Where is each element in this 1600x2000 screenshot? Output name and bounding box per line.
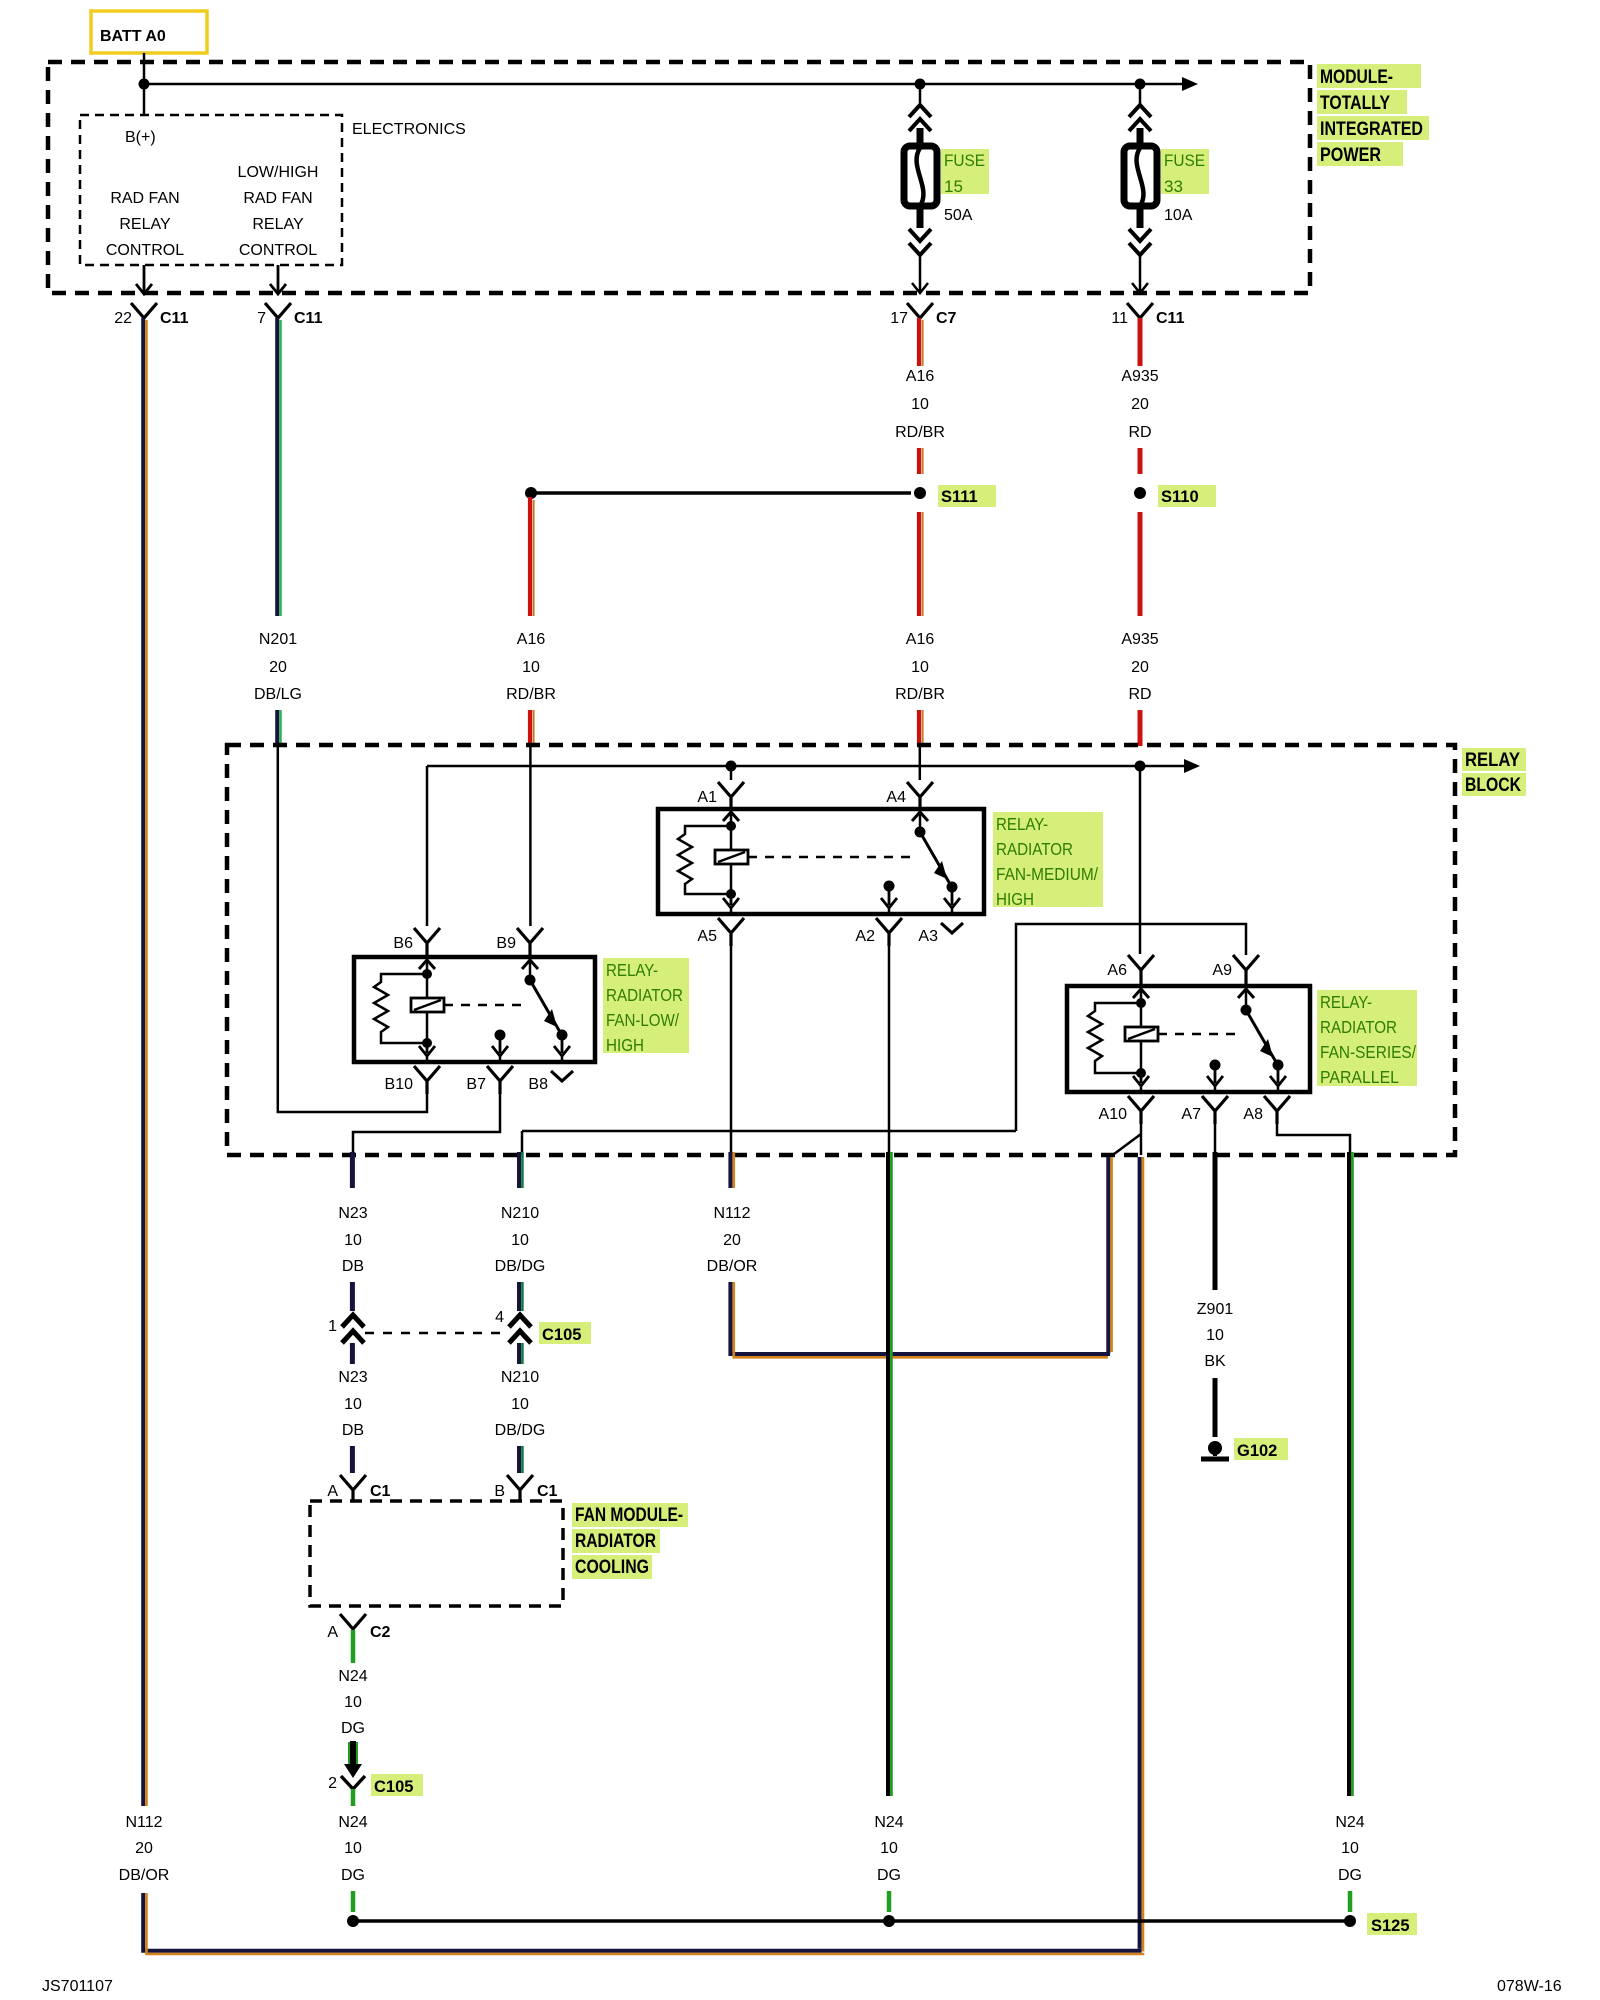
wire N23 DB segment below relay block — [350, 1152, 355, 1188]
switch pivot — [529, 960, 532, 980]
wire N112 DB/OR from A5 down — [730, 1152, 733, 1188]
svg-text:A7: A7 — [1181, 1106, 1201, 1123]
svg-text:DB/LG: DB/LG — [254, 686, 302, 703]
pin B6 connector — [414, 928, 440, 957]
coil output chevron to A10 — [1133, 1073, 1149, 1086]
node: fuse 15 tap — [915, 79, 926, 90]
wire A4 feed below border — [919, 746, 922, 780]
svg-text:A935: A935 — [1121, 631, 1158, 648]
svg-text:BLOCK: BLOCK — [1465, 775, 1521, 796]
svg-text:A8: A8 — [1243, 1106, 1263, 1123]
label N24 10 DG lower left — [338, 1814, 367, 1884]
wire: relay block distribution rail — [427, 766, 1184, 926]
splice S111 — [914, 487, 926, 499]
wire from BATT A0 down — [143, 53, 146, 84]
switch contact to A8 — [1270, 1065, 1286, 1086]
wire N112 DB/OR label segment left column — [119, 1814, 170, 1884]
node S125 center — [883, 1915, 895, 1927]
label N23 10 DB — [338, 1205, 367, 1275]
wire A935 RD segment S110 down — [1138, 512, 1143, 616]
svg-text:20: 20 — [269, 659, 287, 676]
svg-text:N210: N210 — [501, 1205, 539, 1222]
svg-text:10: 10 — [344, 1396, 362, 1413]
svg-text:50A: 50A — [944, 207, 973, 224]
svg-text:N24: N24 — [1335, 1814, 1364, 1831]
switch blade — [530, 980, 560, 1032]
wire A5 down inside block — [730, 946, 733, 1155]
svg-text:ELECTRONICS: ELECTRONICS — [352, 121, 466, 138]
svg-text:10: 10 — [1206, 1327, 1224, 1344]
svg-text:C11: C11 — [294, 310, 323, 327]
svg-text:RD: RD — [1128, 686, 1151, 703]
label S125 — [1367, 1913, 1417, 1935]
connector 17 C7 — [890, 303, 956, 327]
wire: top power rail — [144, 83, 1182, 86]
svg-text:RADIATOR: RADIATOR — [606, 985, 683, 1005]
wire N201 DB/LG segment to relay block — [277, 710, 280, 746]
pin A6 connector — [1128, 955, 1154, 986]
wire Z901 BK segment below relay block — [1213, 1152, 1218, 1290]
label S111 — [938, 485, 996, 507]
label FUSE 15 — [941, 149, 989, 224]
svg-text:RD/BR: RD/BR — [895, 686, 945, 703]
svg-text:DB/OR: DB/OR — [119, 1867, 170, 1884]
wire Z901 BK segment to ground — [1213, 1378, 1218, 1437]
ground G102 — [1201, 1441, 1229, 1459]
fuse 15 top chevrons — [909, 105, 931, 131]
pin A10 connector — [1128, 1096, 1154, 1124]
battery feed label box BATT A0 — [91, 11, 207, 53]
svg-text:CONTROL: CONTROL — [106, 242, 184, 259]
coil K2 — [411, 998, 444, 1012]
label A16 10 RD/BR upper — [895, 368, 945, 441]
wire A935 RD segment below C11 — [1138, 318, 1143, 366]
wire A16 RD/BR left branch below S111 tap — [530, 497, 534, 616]
svg-text:N24: N24 — [874, 1814, 903, 1831]
svg-text:C2: C2 — [370, 1624, 391, 1641]
splice S125 — [1344, 1915, 1356, 1927]
wire N112 DB/OR bottom rail — [143, 1893, 1144, 1954]
svg-text:FAN-MEDIUM/: FAN-MEDIUM/ — [996, 864, 1098, 884]
dashed actuator link — [444, 1004, 523, 1007]
arrowhead power rail continuation — [1182, 77, 1198, 91]
node: S111 branch left end — [525, 487, 537, 499]
svg-text:B9: B9 — [496, 935, 516, 952]
dashed actuator link — [1158, 1033, 1239, 1036]
svg-text:10: 10 — [511, 1396, 529, 1413]
svg-text:A935: A935 — [1121, 368, 1158, 385]
svg-text:N23: N23 — [338, 1369, 367, 1386]
A1 entry chevron — [723, 812, 739, 821]
wire N23 DB segment to C105 — [350, 1282, 355, 1311]
label RAD FAN RELAY CONTROL — [106, 190, 184, 259]
svg-text:RELAY-: RELAY- — [996, 814, 1048, 834]
svg-text:078W-16: 078W-16 — [1497, 1978, 1562, 1995]
label A935 20 RD center — [1121, 631, 1158, 703]
svg-text:A16: A16 — [517, 631, 546, 648]
fuse 33 top stub — [1137, 128, 1144, 148]
svg-text:HIGH: HIGH — [606, 1035, 644, 1055]
svg-text:DG: DG — [1338, 1867, 1362, 1884]
coil output chevron to B10 — [419, 1043, 435, 1056]
svg-text:RD/BR: RD/BR — [895, 424, 945, 441]
wire: S125 ground rail — [353, 1919, 1350, 1923]
svg-text:B: B — [494, 1483, 505, 1500]
svg-text:RELAY-: RELAY- — [606, 960, 658, 980]
resistor — [678, 826, 731, 894]
svg-text:A: A — [327, 1483, 338, 1500]
pin B10 connector — [414, 1066, 440, 1094]
svg-text:HIGH: HIGH — [996, 889, 1034, 909]
connector A C1 — [327, 1475, 390, 1501]
fuse 15 top stub — [917, 128, 924, 148]
label N112 20 DB/OR — [707, 1205, 758, 1275]
svg-text:RAD FAN: RAD FAN — [243, 190, 312, 207]
fuse F15 body — [904, 146, 937, 206]
label N210 10 DB/DG — [495, 1205, 546, 1275]
relay-radiator fan-low/high U1 — [354, 928, 595, 1094]
svg-text:S111: S111 — [941, 488, 978, 506]
wire N112 DB/OR from pin 22 down — [143, 318, 146, 1806]
svg-text:RADIATOR: RADIATOR — [996, 839, 1073, 859]
svg-text:S125: S125 — [1371, 1917, 1410, 1935]
resistor — [1088, 1003, 1141, 1073]
svg-text:FUSE: FUSE — [944, 151, 985, 170]
pin A5 connector — [718, 918, 744, 946]
svg-text:JS701107: JS701107 — [42, 1978, 113, 1995]
svg-text:INTEGRATED: INTEGRATED — [1320, 119, 1423, 140]
coil column — [1140, 989, 1143, 1073]
wire A8 to right column — [1277, 1124, 1350, 1155]
svg-text:C105: C105 — [374, 1778, 413, 1796]
wire N24 DG from A2 down — [888, 1152, 891, 1796]
svg-text:C11: C11 — [1156, 310, 1185, 327]
wire N24 DG stem below C105 — [351, 1789, 356, 1806]
coil K1 — [715, 850, 748, 864]
wire A16 RD/BR segment to S111 — [919, 448, 923, 474]
label N23 10 DB lower — [338, 1369, 367, 1439]
svg-text:11: 11 — [1111, 310, 1128, 327]
switch blade — [1246, 1010, 1276, 1062]
relay box — [658, 809, 984, 914]
label N24 10 DG — [338, 1668, 367, 1737]
svg-text:A9: A9 — [1212, 962, 1232, 979]
svg-text:MODULE-: MODULE- — [1320, 67, 1393, 88]
wire into electronics box — [143, 84, 146, 115]
label C105 lower — [371, 1774, 423, 1796]
arrowhead relay rail continuation — [1184, 759, 1200, 773]
svg-text:DB: DB — [342, 1258, 364, 1275]
pin B8 open connector — [551, 1071, 573, 1081]
label FAN MODULE-RADIATOR COOLING — [572, 1503, 688, 1579]
relay box — [354, 957, 595, 1062]
wire N24 DG segment to S125 right — [1348, 1891, 1353, 1912]
switch contact to A3 — [944, 887, 960, 908]
svg-text:A16: A16 — [906, 631, 935, 648]
wire N24 DG segment to S125 center — [887, 1891, 892, 1912]
coil output chevron to A5 — [723, 894, 739, 908]
label N201 20 DB/LG — [254, 631, 302, 703]
label LOW/HIGH RAD FAN RELAY CONTROL — [238, 164, 319, 259]
wire N24 DG segment to S125 — [351, 1891, 356, 1912]
svg-text:10: 10 — [511, 1232, 529, 1249]
label A16 10 RD/BR center — [895, 631, 945, 703]
connector C105 pin 1 — [328, 1315, 364, 1343]
svg-text:FUSE: FUSE — [1164, 151, 1205, 170]
svg-text:10: 10 — [344, 1694, 362, 1711]
relay-radiator fan-medium/high U2 — [658, 782, 984, 946]
fuse 33 bottom stub — [1137, 204, 1144, 228]
coil K3 — [1125, 1027, 1158, 1041]
svg-text:N23: N23 — [338, 1205, 367, 1222]
label N24 10 DG right — [1335, 1814, 1364, 1884]
svg-text:DG: DG — [341, 1720, 365, 1737]
connector 7 C11 — [257, 303, 322, 327]
svg-text:FAN MODULE-: FAN MODULE- — [575, 1505, 683, 1526]
wire A16 inside relay block to B9 — [529, 746, 532, 926]
svg-text:RELAY: RELAY — [119, 216, 171, 233]
svg-text:A10: A10 — [1099, 1106, 1128, 1123]
wire: S111 branch horizontal — [531, 491, 911, 495]
svg-text:S110: S110 — [1161, 488, 1199, 506]
pin A1 connector — [718, 782, 744, 809]
wire: low/high rad fan relay control output arrow — [270, 265, 286, 294]
svg-text:DB/OR: DB/OR — [707, 1258, 758, 1275]
svg-text:10A: 10A — [1164, 207, 1193, 224]
B6 entry chevron — [419, 960, 435, 969]
svg-text:N112: N112 — [713, 1205, 750, 1222]
fuse 15 bottom chevrons — [909, 229, 931, 255]
connector C105 pin 2 — [328, 1775, 365, 1802]
coil column — [730, 812, 733, 894]
relay block dashed box — [227, 745, 1455, 1155]
svg-text:2: 2 — [328, 1775, 337, 1792]
wire N23 DB segment to C1 — [350, 1446, 355, 1473]
wire B7 to N23 stub — [353, 1094, 500, 1155]
svg-text:BATT A0: BATT A0 — [100, 28, 166, 45]
wire N210 DB/DG segment below C105 — [519, 1343, 522, 1364]
pin A9 connector — [1233, 955, 1259, 986]
svg-text:7: 7 — [257, 310, 266, 327]
wire A16 RD/BR segment to relay block — [919, 710, 923, 746]
svg-text:N24: N24 — [338, 1814, 367, 1831]
svg-text:20: 20 — [1131, 659, 1149, 676]
wire N210 DB/DG segment to C1 — [519, 1446, 522, 1473]
label N24 10 DG center — [874, 1814, 903, 1884]
wire N24 DG bold arrow into C105 — [344, 1741, 362, 1778]
pin B7 connector — [487, 1066, 513, 1094]
wire N23 DB segment below C105 — [350, 1343, 355, 1364]
svg-text:PARALLEL: PARALLEL — [1320, 1067, 1399, 1087]
splice S110 — [1134, 487, 1146, 499]
label A16 10 RD/BR left — [506, 631, 556, 703]
wire A1 feed from rail — [730, 766, 733, 780]
wire A16 RD/BR segment below C7 — [919, 318, 923, 366]
B9 entry chevron — [522, 960, 538, 969]
dashed actuator link — [748, 856, 912, 859]
svg-text:FAN-LOW/: FAN-LOW/ — [606, 1010, 679, 1030]
module-totally integrated power dashed box — [48, 62, 1310, 293]
wire N201 DB/LG segment from pin 7 — [277, 318, 280, 616]
pin A3 open connector — [941, 923, 963, 933]
svg-text:CONTROL: CONTROL — [239, 242, 317, 259]
node: fuse 33 tap — [1135, 79, 1146, 90]
wire A7 down inside block — [1214, 1124, 1217, 1155]
label Z901 10 BK — [1197, 1301, 1234, 1370]
A7 contact — [1210, 1060, 1221, 1071]
node S125 left — [347, 1915, 359, 1927]
fuse 33 output wire with arrowhead — [1132, 255, 1148, 293]
node: rail to A6 — [1135, 761, 1146, 772]
svg-text:N112: N112 — [125, 1814, 162, 1831]
wire A935 RD segment to S110 — [1138, 448, 1143, 474]
A9 entry chevron — [1238, 989, 1254, 998]
svg-text:A6: A6 — [1107, 962, 1127, 979]
wire N210 DB/DG segment to C105 — [519, 1282, 522, 1311]
connector 11 C11 — [1111, 303, 1184, 327]
A4 entry chevron — [912, 812, 928, 821]
svg-text:DG: DG — [877, 1867, 901, 1884]
svg-text:RELAY: RELAY — [252, 216, 304, 233]
fuse 33 top chevrons — [1129, 105, 1151, 131]
wire A6 feed from rail — [1139, 766, 1142, 954]
svg-text:RELAY-: RELAY- — [1320, 992, 1372, 1012]
wire N210 DB/DG segment below relay block — [519, 1152, 522, 1188]
wire N24 DG segment below C2 — [351, 1630, 356, 1663]
wire A16 RD/BR segment S111 down — [919, 512, 923, 616]
wire N201 inside relay block to B10 — [278, 746, 427, 1112]
label RELAY-RADIATOR FAN-SERIES/PARALLEL — [1317, 990, 1417, 1087]
pin B9 connector — [517, 928, 543, 957]
svg-text:20: 20 — [723, 1232, 741, 1249]
A2 contact — [884, 881, 895, 892]
svg-text:10: 10 — [344, 1232, 362, 1249]
svg-text:22: 22 — [114, 310, 132, 327]
svg-text:LOW/HIGH: LOW/HIGH — [238, 164, 319, 181]
svg-text:A4: A4 — [886, 789, 906, 806]
pin A7 connector — [1202, 1096, 1228, 1124]
svg-text:C105: C105 — [542, 1326, 581, 1344]
svg-text:10: 10 — [880, 1840, 898, 1857]
svg-text:RELAY: RELAY — [1465, 750, 1520, 771]
svg-text:RD/BR: RD/BR — [506, 686, 556, 703]
svg-text:BK: BK — [1204, 1353, 1226, 1370]
svg-text:10: 10 — [911, 659, 929, 676]
wire A935 RD segment to relay block — [1138, 710, 1143, 746]
svg-text:RADIATOR: RADIATOR — [1320, 1017, 1397, 1037]
svg-text:C11: C11 — [160, 310, 189, 327]
svg-text:POWER: POWER — [1320, 145, 1381, 166]
connector 22 C11 — [114, 303, 188, 327]
svg-text:10: 10 — [911, 396, 929, 413]
connector B C1 — [494, 1475, 557, 1501]
node: battery feed junction — [139, 79, 150, 90]
label C105 — [539, 1322, 591, 1344]
dashed connector link C105 — [365, 1332, 505, 1335]
connector A C2 — [327, 1614, 390, 1641]
resistor — [374, 974, 427, 1043]
svg-text:A3: A3 — [918, 928, 938, 945]
label MODULE-TOTALLY INTEGRATED POWER — [1317, 64, 1429, 166]
fuse F33 body — [1124, 146, 1157, 206]
svg-text:N201: N201 — [259, 631, 297, 648]
switch pivot — [1245, 989, 1248, 1010]
connector C105 pin 4 — [495, 1309, 531, 1343]
wire N24 DG from A8 down — [1349, 1152, 1352, 1796]
svg-text:C7: C7 — [936, 310, 957, 327]
svg-text:B6: B6 — [393, 935, 413, 952]
svg-text:10: 10 — [344, 1840, 362, 1857]
A6 entry chevron — [1133, 989, 1149, 998]
label G102 — [1234, 1438, 1288, 1460]
svg-text:15: 15 — [944, 177, 963, 196]
fuse 33 bottom chevrons — [1129, 229, 1151, 255]
switch contact to B8 — [554, 1035, 570, 1056]
wire N112 DB/OR elbow to A10 riser — [730, 1157, 1111, 1357]
svg-text:4: 4 — [495, 1309, 504, 1326]
svg-text:N24: N24 — [338, 1668, 367, 1685]
switch blade — [920, 832, 950, 884]
wire A9 feed — [522, 924, 1246, 1155]
node: rail to A1 — [726, 761, 737, 772]
label RELAY BLOCK — [1462, 748, 1526, 796]
svg-text:B(+): B(+) — [125, 129, 156, 146]
svg-text:17: 17 — [890, 310, 908, 327]
svg-text:C1: C1 — [370, 1483, 391, 1500]
label FUSE 33 — [1161, 149, 1209, 224]
label RELAY-RADIATOR FAN-MEDIUM/HIGH — [993, 812, 1103, 909]
svg-text:A5: A5 — [697, 928, 717, 945]
svg-text:C1: C1 — [537, 1483, 558, 1500]
svg-text:A1: A1 — [697, 789, 717, 806]
svg-text:DB/DG: DB/DG — [495, 1422, 546, 1439]
fuse 15 feed wire — [919, 84, 922, 106]
label S110 — [1158, 485, 1216, 507]
svg-text:1: 1 — [328, 1318, 337, 1335]
pin A2 connector — [876, 918, 902, 946]
svg-text:TOTALLY: TOTALLY — [1320, 93, 1390, 114]
wire A16 RD/BR left segment to relay block — [530, 710, 534, 746]
svg-text:G102: G102 — [1237, 1442, 1277, 1460]
wire A2 down inside block — [888, 946, 891, 1155]
svg-text:A2: A2 — [855, 928, 875, 945]
svg-text:20: 20 — [1131, 396, 1149, 413]
electronics inner dashed box — [80, 115, 342, 265]
fan module-radiator cooling dashed box — [310, 1501, 563, 1606]
svg-text:B7: B7 — [466, 1076, 486, 1093]
svg-text:B10: B10 — [385, 1076, 414, 1093]
svg-text:10: 10 — [522, 659, 540, 676]
fuse 15 bottom stub — [917, 204, 924, 228]
svg-text:N210: N210 — [501, 1369, 539, 1386]
B7 contact — [495, 1030, 506, 1041]
svg-text:Z901: Z901 — [1197, 1301, 1234, 1318]
svg-text:DB/DG: DB/DG — [495, 1258, 546, 1275]
svg-text:A16: A16 — [906, 368, 935, 385]
wire: rad fan relay control output arrow — [136, 265, 152, 294]
relay-radiator fan-series/parallel U3 — [522, 924, 1310, 1155]
svg-text:DB: DB — [342, 1422, 364, 1439]
fuse 15 output wire with arrowhead — [912, 255, 928, 293]
wire A10 branch to N112 riser — [1110, 1124, 1141, 1157]
svg-text:COOLING: COOLING — [575, 1557, 649, 1578]
svg-text:DG: DG — [341, 1867, 365, 1884]
svg-text:B8: B8 — [528, 1076, 548, 1093]
svg-text:RD: RD — [1128, 424, 1151, 441]
label A935 20 RD upper — [1121, 368, 1158, 441]
coil column — [426, 960, 429, 1043]
label N210 10 DB/DG lower — [495, 1369, 546, 1439]
